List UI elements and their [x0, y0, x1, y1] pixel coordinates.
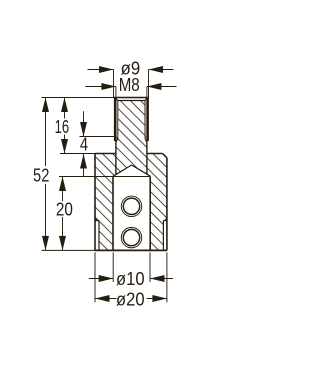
drill point cone left slope [113, 165, 132, 176]
svg-text:4: 4 [80, 134, 88, 154]
body bottom edge [95, 249, 167, 251]
groove step corner chamfer left [95, 218, 97, 220]
svg-text:16: 16 [55, 117, 70, 137]
svg-text:ø10: ø10 [116, 269, 145, 289]
dimension dia9 leader left [88, 69, 114, 71]
stud outer thin line left (dia 9) [113, 70, 115, 98]
drill point cone right slope [132, 165, 151, 176]
stud left crest outline [114, 98, 117, 142]
groove wall right [162, 221, 164, 251]
bore wall left [112, 177, 114, 251]
dimension dia10 leader right [150, 278, 173, 280]
groove step corner chamfer right [165, 218, 167, 220]
extension line body bottom left [42, 249, 96, 251]
stud top left chamfer corner [115, 98, 117, 101]
extension line stud top [42, 97, 114, 99]
dimension dia20 line left [95, 298, 117, 300]
cross hole upper inner circle [123, 198, 139, 214]
groove step face left [95, 220, 99, 222]
stud top chamfer line [118, 100, 145, 102]
stud M8 section hatch [116, 101, 147, 175]
extension line dia20 left [94, 252, 96, 302]
extension line dia10 left [112, 252, 114, 282]
groove wall left [98, 221, 100, 251]
cross hole upper outer circle [121, 196, 142, 217]
dimension 20 line [62, 177, 64, 202]
svg-text:52: 52 [33, 166, 49, 186]
extension line bore cone base [59, 176, 150, 178]
dimension dia20 line right [147, 298, 167, 300]
stud top right chamfer corner [145, 98, 147, 101]
dimension dia9 leader right [149, 69, 174, 71]
dimension 4 upper arrow [83, 111, 85, 136]
extension line M8 right [146, 87, 148, 98]
cross hole lower outer circle [121, 227, 142, 248]
extension line body top left [60, 153, 95, 155]
thread runout arc right [145, 136, 147, 141]
body right edge [166, 158, 168, 251]
extension line dia10 right [149, 252, 151, 282]
thread root line right [144, 101, 146, 137]
stud right crest outline [146, 98, 149, 142]
dimension 4 lower arrow [83, 154, 85, 177]
dimension 52 line [45, 98, 47, 167]
stud top face [114, 97, 149, 99]
body top edge right [147, 153, 163, 155]
thread root line left [117, 101, 119, 137]
thread runout arc left [116, 136, 118, 141]
extension line dia20 right [166, 252, 168, 302]
dimension M8 leader right [147, 86, 177, 88]
body left wall section hatch [95, 154, 116, 251]
extension line M8 left [115, 87, 117, 98]
body top edge left [95, 153, 116, 155]
dimension 16 line [64, 98, 66, 119]
cross hole lower inner circle [123, 229, 139, 245]
bore wall right [149, 177, 151, 251]
groove step face right [163, 220, 167, 222]
body left edge [94, 154, 96, 251]
stud outer thin line right (dia 9) [148, 70, 150, 98]
extension line thread end y137 [80, 136, 116, 138]
svg-text:ø20: ø20 [116, 290, 145, 310]
svg-text:M8: M8 [119, 75, 140, 95]
dimension M8 leader left [85, 86, 116, 88]
dimension dia10 leader left [89, 278, 113, 280]
body right wall section hatch [147, 154, 167, 251]
svg-text:20: 20 [56, 200, 73, 220]
body top right chamfer [163, 154, 167, 158]
